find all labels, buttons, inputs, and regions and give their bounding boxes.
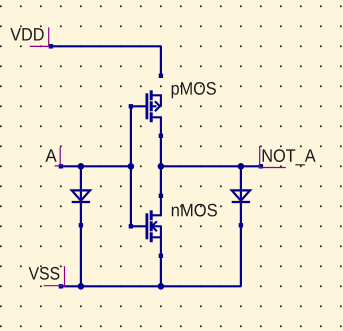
pMOS bulk tie vertical — [160, 95, 162, 106]
junction left diode at input row — [78, 163, 85, 170]
nMOS gate pin — [131, 225, 146, 227]
nMOS bulk arrow wing upper — [152, 221, 157, 226]
node square A wire start — [59, 164, 63, 168]
label nMOS text — [172, 204, 217, 217]
node square NOT_A wire end — [259, 164, 263, 168]
pMOS bulk shaft — [151, 105, 157, 107]
label VDD text — [10, 28, 43, 40]
pMOS bulk arrow wing lower — [155, 106, 160, 111]
pMOS channel bar middle — [150, 101, 153, 111]
wire pMOS source to output node — [160, 136, 162, 166]
pMOS source lead — [160, 117, 162, 136]
nMOS channel bar bottom — [150, 232, 153, 242]
diode D2 (right) — [232, 190, 250, 202]
nMOS bulk arrow wing lower — [152, 226, 157, 231]
pin square pMOS drain — [159, 74, 163, 78]
D2 cathode bar — [232, 201, 250, 203]
nMOS gate bar — [145, 213, 148, 239]
label NOT_A anchor — [260, 146, 286, 167]
label pMOS text — [172, 82, 216, 98]
junction node A/gate — [128, 163, 135, 170]
pin square nMOS gate — [129, 224, 133, 228]
pMOS channel bar top — [150, 90, 153, 100]
wire output node to NOT_A — [161, 165, 261, 167]
nMOS drain stub — [151, 214, 162, 216]
wire VDD drop to pMOS drain — [160, 46, 162, 76]
label VDD anchor — [30, 27, 49, 46]
label A anchor — [55, 147, 61, 167]
wire input A to gate node — [61, 165, 131, 167]
D1 triangle — [72, 190, 90, 200]
wire VSS rail — [61, 285, 241, 287]
nMOS bulk shaft — [152, 225, 161, 227]
label VSS text — [29, 267, 60, 280]
pMOS source stub — [151, 116, 162, 118]
node square VSS wire start — [59, 284, 63, 288]
transistor pMOS — [131, 90, 162, 136]
D2 triangle — [232, 190, 250, 200]
label A text — [45, 149, 56, 161]
nMOS channel bar middle — [150, 221, 153, 231]
label VSS anchor — [44, 266, 65, 287]
pin square pMOS source — [159, 134, 163, 138]
junction output node — [158, 163, 165, 170]
junction right diode at output row — [238, 163, 245, 170]
wire right diode column — [240, 166, 242, 286]
junction left diode at VSS rail — [78, 283, 85, 290]
pMOS gate bar — [145, 93, 148, 119]
node square VDD wire start — [49, 44, 53, 48]
label NOT_A text — [263, 149, 316, 165]
pMOS drain stub — [151, 94, 162, 96]
nMOS bulk tie vertical — [160, 226, 162, 237]
pin square pMOS gate — [129, 104, 133, 108]
pin square right diode cathode — [239, 223, 243, 227]
D1 cathode bar — [72, 201, 90, 203]
pMOS gate pin — [131, 105, 146, 107]
nMOS source lead — [160, 237, 162, 256]
transistor nMOS — [131, 196, 162, 256]
wire nMOS source to VSS rail — [160, 256, 162, 286]
pin square left diode cathode — [79, 223, 83, 227]
junction nMOS source at VSS rail — [158, 283, 165, 290]
pMOS bulk arrow wing upper — [155, 101, 160, 106]
wire VDD rail — [51, 45, 161, 47]
pin square nMOS drain — [159, 194, 163, 198]
pMOS channel bar bottom — [150, 112, 153, 122]
wire left diode column — [80, 166, 82, 286]
wire output node to nMOS drain — [160, 166, 162, 196]
nMOS drain lead — [160, 196, 162, 215]
diode D1 (left) — [72, 190, 90, 202]
nMOS source stub — [151, 236, 162, 238]
pin square nMOS source — [159, 254, 163, 258]
nMOS channel bar top — [150, 210, 153, 220]
wire gate column pMOS gate to nMOS gate — [130, 106, 132, 226]
